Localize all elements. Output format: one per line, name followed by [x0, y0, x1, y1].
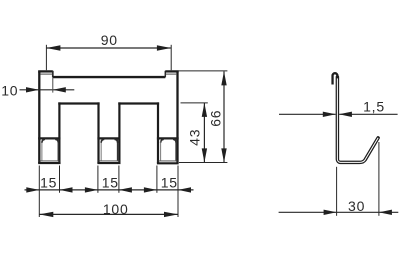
- dim 43 bottom arrow: [202, 148, 207, 162]
- dim 30 right extension line: [378, 142, 380, 216]
- dim 1,5 left arrow: [323, 112, 336, 117]
- svg-text:15: 15: [161, 175, 178, 191]
- dim 100 left arrow: [39, 212, 53, 217]
- dim 1,5 right line: [339, 113, 397, 115]
- dim 43 top arrow: [202, 103, 207, 117]
- dim 30 line: [279, 211, 399, 213]
- dim 90 right extension line: [170, 45, 172, 70]
- dim 15 arrows leg1: [26, 187, 39, 192]
- dim 43 top extension line: [181, 102, 208, 104]
- front view outline: right tab top: [165, 70, 178, 72]
- lip corner fillets leg2: [101, 139, 117, 143]
- side view top curl: [333, 73, 338, 84]
- lip inner side lines leg2: [100, 140, 102, 160]
- rail underside between legs: [58, 102, 159, 104]
- dim 30 right arrow: [379, 210, 392, 215]
- svg-text:1,5: 1,5: [363, 99, 385, 115]
- right tab fold line: [166, 73, 176, 75]
- dim 90 right arrow: [157, 45, 171, 50]
- dim 30 left extension line: [336, 167, 338, 216]
- dim 15 arrows leg2: [85, 187, 98, 192]
- front view outline: left tab top: [38, 70, 53, 72]
- lip corner fillets leg3: [161, 139, 176, 143]
- front view outline: left edge: [38, 71, 40, 163]
- svg-text:15: 15: [40, 175, 57, 191]
- svg-text:30: 30: [348, 198, 365, 214]
- dim 15 arrows leg3: [144, 187, 157, 192]
- svg-text:66: 66: [208, 110, 224, 127]
- svg-text:10: 10: [1, 82, 18, 98]
- dim 66 top extension line: [179, 70, 228, 72]
- dim 30 left arrow: [324, 210, 337, 215]
- svg-text:43: 43: [187, 129, 203, 146]
- dim 90 left extension line: [45, 45, 47, 70]
- side view sheet profile (white core): [337, 77, 378, 162]
- svg-text:100: 100: [103, 201, 129, 217]
- dim 66 line: [223, 71, 225, 162]
- dim 10 extension line: [52, 77, 54, 92]
- dim 100 right arrow: [164, 212, 178, 217]
- lip inner side lines leg3: [160, 140, 162, 160]
- dim 43 line: [203, 103, 205, 162]
- dim 10 right arrow: [53, 87, 66, 92]
- front view outline: left tab right edge: [52, 71, 54, 78]
- dim 10 line: [20, 89, 75, 91]
- leg bottoms thick: [38, 162, 179, 164]
- dim 66 bottom arrow: [221, 148, 226, 162]
- dim 100 line: [39, 213, 178, 215]
- dim 15 continuous line: [25, 189, 194, 191]
- side view sheet profile (dark stroke): [337, 77, 378, 162]
- dim 66 top arrow: [221, 71, 226, 85]
- svg-text:90: 90: [101, 32, 118, 48]
- lip corner fillets leg1: [42, 139, 58, 143]
- lip inner side lines leg1: [41, 140, 43, 160]
- extension lines below legs: [38, 166, 40, 218]
- dim 90 left arrow: [46, 45, 60, 50]
- dim 10 left arrow: [26, 87, 39, 92]
- front view outline: right edge: [176, 71, 178, 163]
- bottom extension line for 66 and 43: [179, 162, 227, 164]
- leg gap vertical edges: [59, 102, 158, 163]
- dim 90 line: [46, 47, 170, 49]
- svg-text:15: 15: [102, 175, 119, 191]
- dim 1,5 right arrow: [339, 112, 352, 117]
- front view outline: right tab left edge: [164, 71, 166, 78]
- front view outline: top rail edge: [53, 76, 166, 78]
- lip top lines in legs: [38, 137, 179, 139]
- left tab fold line: [41, 73, 53, 75]
- dim 1,5 left line: [279, 113, 336, 115]
- leg bottom inner thin lines: [39, 160, 178, 162]
